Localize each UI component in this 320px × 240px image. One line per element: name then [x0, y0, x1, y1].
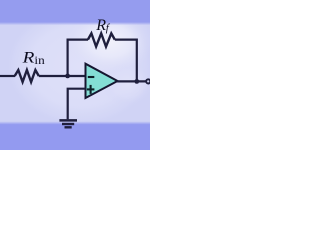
svg-text:R: R	[22, 48, 35, 66]
ground	[59, 120, 77, 127]
output terminal	[146, 79, 150, 83]
top banner	[0, 0, 150, 22]
node junction at inverting input	[65, 74, 70, 79]
wire output	[117, 80, 146, 82]
op-amp minus sign	[88, 76, 95, 78]
svg-text:in: in	[34, 53, 44, 67]
svg-text:R: R	[95, 17, 106, 34]
op-amp U1 triangle	[86, 64, 118, 98]
bottom banner	[0, 121, 150, 124]
wire input left segment	[0, 75, 15, 77]
wire non-inverting input	[68, 89, 86, 120]
resistor Rin zigzag	[15, 70, 39, 82]
wire from Rin to op-amp inverting input	[39, 75, 86, 77]
op-amp plus sign	[87, 88, 95, 90]
background middle area	[0, 0, 150, 150]
resistor Rf zigzag	[88, 33, 115, 46]
wire feedback right and down	[115, 40, 137, 82]
wire feedback up and across	[68, 40, 88, 76]
node junction at output	[134, 79, 139, 84]
